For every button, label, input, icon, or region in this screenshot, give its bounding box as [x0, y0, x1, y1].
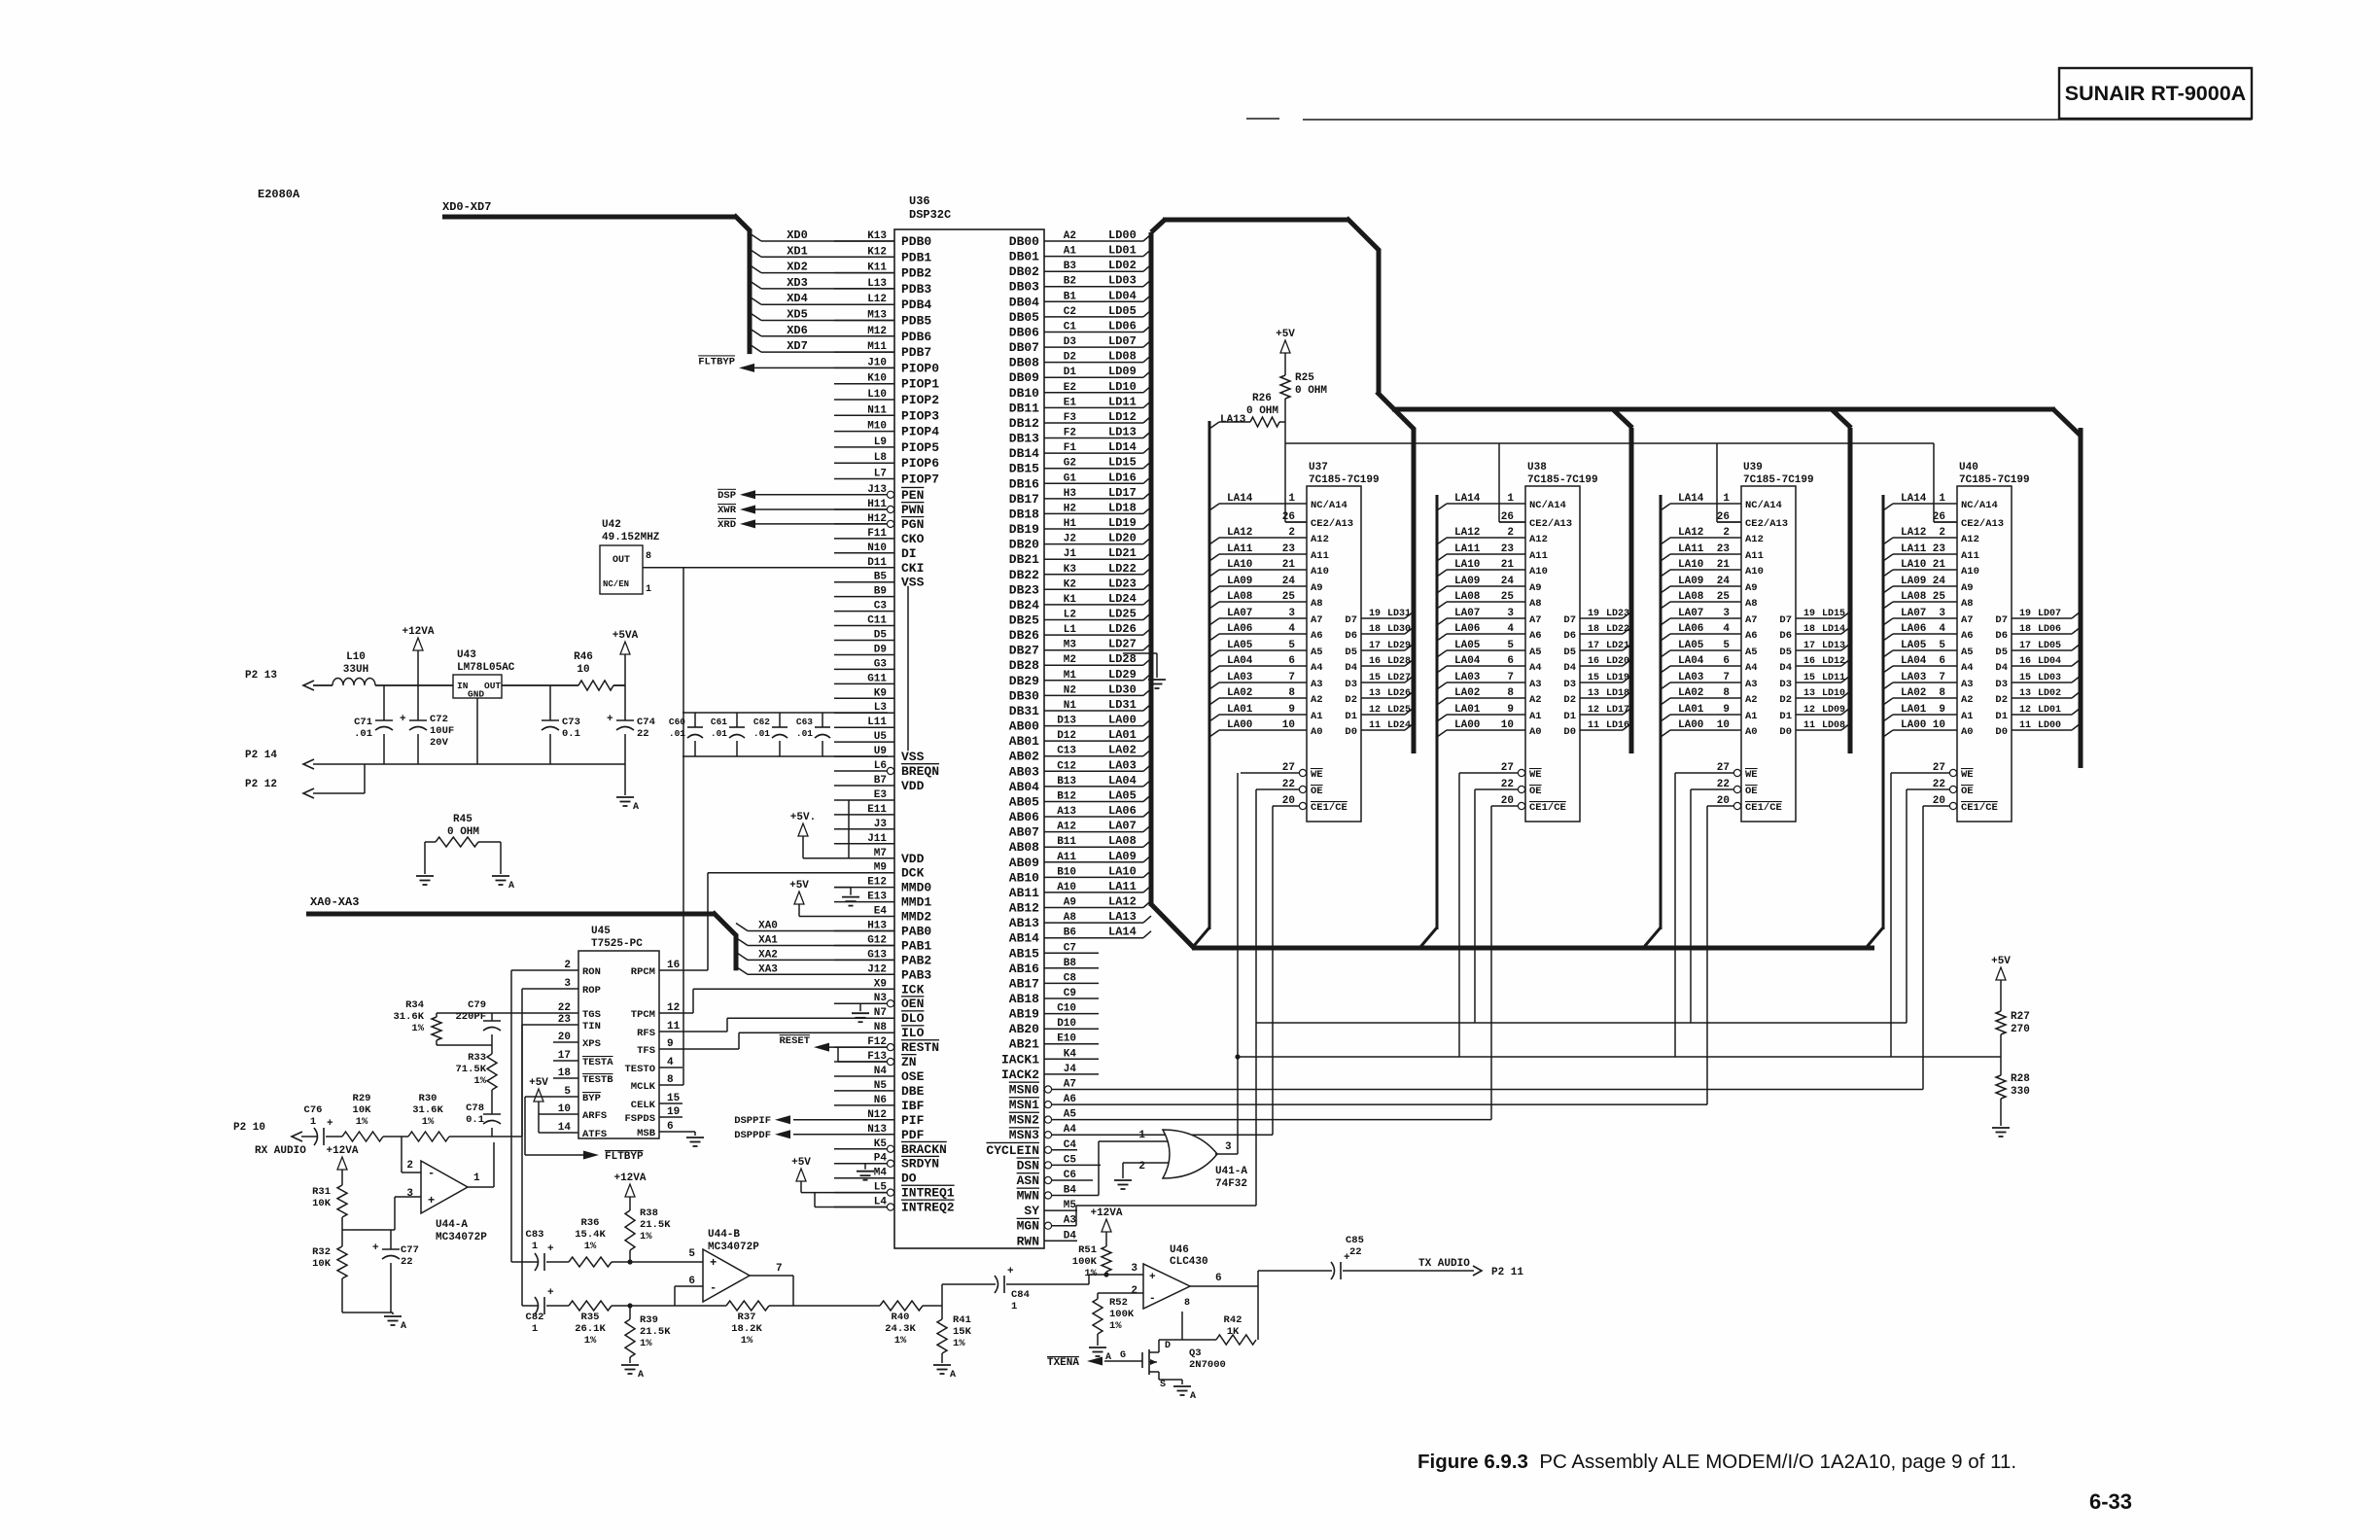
svg-text:LA12: LA12	[1901, 527, 1926, 539]
svg-text:R52: R52	[1109, 1297, 1128, 1309]
svg-text:TXENA: TXENA	[1047, 1357, 1079, 1369]
svg-text:LD15: LD15	[1108, 456, 1137, 470]
svg-text:K13: K13	[867, 230, 887, 242]
resistor R39 21.5K 1% with ground	[621, 1303, 671, 1381]
svg-text:L11: L11	[867, 717, 887, 728]
svg-text:PDF: PDF	[901, 1128, 925, 1142]
svg-text:+: +	[428, 1194, 435, 1207]
svg-text:8: 8	[1184, 1298, 1190, 1309]
svg-text:C78: C78	[466, 1102, 484, 1114]
svg-text:LA10: LA10	[1454, 559, 1480, 571]
svg-text:6: 6	[1288, 655, 1295, 667]
svg-text:D6: D6	[1779, 630, 1792, 642]
+5V pull-up at U36 VDD pin M7	[790, 812, 834, 858]
ground near U36 data bus	[1123, 653, 1166, 688]
svg-text:A12: A12	[1961, 534, 1979, 545]
svg-text:22: 22	[637, 728, 649, 740]
svg-text:7: 7	[1288, 672, 1295, 683]
svg-text:3: 3	[1507, 608, 1514, 619]
svg-text:20: 20	[1501, 795, 1514, 807]
wire XA0 to U36 pin H13	[736, 921, 894, 932]
svg-text:C9: C9	[1064, 988, 1076, 999]
svg-text:26.1K: 26.1K	[575, 1323, 606, 1335]
svg-text:CE2/A13: CE2/A13	[1311, 518, 1353, 530]
svg-text:P2 12: P2 12	[245, 779, 277, 790]
svg-text:A: A	[633, 802, 639, 813]
svg-text:Q3: Q3	[1189, 1347, 1202, 1359]
svg-text:OE: OE	[1311, 786, 1323, 797]
svg-text:L8: L8	[874, 452, 888, 464]
bus diagonal drop to U38 data bus	[1613, 409, 1632, 428]
svg-text:J1: J1	[1064, 548, 1077, 560]
svg-text:1%: 1%	[473, 1075, 486, 1087]
wire U44-B output node	[750, 1276, 880, 1306]
signal DSPPIF (to U36 PIF pin N12)	[734, 1115, 894, 1127]
svg-text:N3: N3	[874, 993, 888, 1004]
ground at U36 MMD0 pin E12	[834, 888, 859, 906]
wire XD0 from XD bus to U36 pin K13	[750, 228, 894, 242]
svg-text:10: 10	[1282, 719, 1295, 731]
svg-text:A9: A9	[1529, 582, 1542, 594]
svg-text:27: 27	[1933, 762, 1945, 774]
svg-text:4: 4	[1723, 623, 1730, 635]
svg-text:N7: N7	[874, 1007, 887, 1019]
svg-text:SRDYN: SRDYN	[901, 1157, 939, 1172]
svg-text:MWN: MWN	[1017, 1189, 1039, 1204]
svg-text:A11: A11	[1529, 550, 1548, 562]
wire U45 MCLK stub to oscillator net	[682, 1084, 683, 1086]
svg-text:3: 3	[1288, 608, 1295, 619]
svg-text:ROP: ROP	[582, 985, 601, 997]
bus diagonal drop to U39 data bus	[1832, 409, 1851, 428]
svg-text:PAB1: PAB1	[901, 939, 931, 954]
svg-text:U5: U5	[874, 731, 888, 743]
svg-text:2: 2	[1507, 527, 1514, 539]
svg-text:N4: N4	[874, 1066, 888, 1077]
svg-text:TESTB: TESTB	[582, 1074, 613, 1086]
svg-text:15: 15	[667, 1093, 681, 1104]
svg-text:LA07: LA07	[1227, 608, 1252, 619]
svg-text:R46: R46	[574, 651, 593, 663]
svg-text:A1: A1	[1961, 711, 1974, 722]
svg-text:PDB6: PDB6	[901, 330, 931, 344]
svg-text:L13: L13	[867, 278, 887, 290]
svg-text:+12VA: +12VA	[613, 1172, 646, 1184]
svg-text:N1: N1	[1064, 700, 1077, 712]
svg-text:M13: M13	[867, 310, 887, 322]
svg-text:E2080A: E2080A	[258, 188, 300, 201]
svg-text:R32: R32	[312, 1246, 331, 1258]
resistor R34 31.6K 1% (TGS network)	[393, 999, 553, 1045]
svg-text:23: 23	[1501, 543, 1515, 555]
svg-text:D7: D7	[1563, 614, 1576, 626]
svg-text:C77: C77	[401, 1244, 419, 1256]
svg-text:LA08: LA08	[1108, 834, 1137, 848]
U40 control pins WE OE CE1	[1891, 762, 1998, 814]
wire XD5 from XD bus to U36 pin M13	[750, 308, 894, 322]
svg-text:OUT: OUT	[484, 681, 501, 691]
svg-text:R51: R51	[1078, 1244, 1097, 1256]
svg-text:AB15: AB15	[1009, 946, 1039, 961]
svg-text:1%: 1%	[584, 1335, 597, 1347]
svg-text:R26: R26	[1252, 393, 1272, 404]
svg-text:LD08: LD08	[1108, 350, 1137, 364]
svg-text:J13: J13	[867, 484, 887, 496]
svg-text:1K: 1K	[1227, 1326, 1240, 1338]
svg-text:G1: G1	[1064, 472, 1077, 484]
svg-text:AB03: AB03	[1009, 764, 1039, 779]
signal TXENA to Q3 gate	[1047, 1357, 1142, 1370]
svg-text:CE1/CE: CE1/CE	[1311, 802, 1347, 814]
svg-text:R41: R41	[953, 1314, 971, 1326]
svg-text:+12VA: +12VA	[1090, 1207, 1122, 1219]
svg-text:R42: R42	[1224, 1314, 1242, 1326]
svg-text:U43: U43	[457, 649, 476, 661]
svg-text:LA00: LA00	[1108, 714, 1137, 727]
svg-text:LA04: LA04	[1227, 655, 1253, 667]
svg-text:A13: A13	[1057, 806, 1076, 818]
svg-text:6-33: 6-33	[2089, 1489, 2132, 1514]
svg-text:LA07: LA07	[1678, 608, 1703, 619]
svg-text:A7: A7	[1529, 614, 1542, 626]
wire XA3 to U36 pin J12	[736, 963, 894, 975]
bus LD00-LD31/LA00-LA14 vertical trunk	[1151, 220, 1165, 906]
svg-text:A12: A12	[1057, 822, 1076, 833]
svg-text:M4: M4	[874, 1168, 888, 1179]
svg-text:C5: C5	[1064, 1154, 1077, 1166]
svg-text:3: 3	[406, 1188, 413, 1200]
svg-text:12: 12	[667, 1002, 680, 1014]
svg-text:R25: R25	[1295, 372, 1314, 384]
svg-text:+: +	[372, 1242, 379, 1254]
svg-text:9: 9	[1939, 704, 1945, 716]
svg-text:LA12: LA12	[1678, 527, 1703, 539]
svg-text:U44-A: U44-A	[436, 1219, 468, 1231]
net RWN stub	[1044, 1240, 1077, 1242]
svg-text:14: 14	[558, 1122, 572, 1134]
svg-text:22: 22	[1282, 779, 1295, 790]
svg-text:LA09: LA09	[1454, 576, 1480, 587]
svg-text:220PF: 220PF	[455, 1011, 486, 1023]
svg-text:AB19: AB19	[1009, 1007, 1039, 1022]
svg-text:8: 8	[1507, 687, 1514, 699]
svg-text:LD24: LD24	[1108, 592, 1137, 606]
svg-text:2: 2	[406, 1160, 413, 1172]
svg-text:U40: U40	[1959, 462, 1978, 473]
svg-text:23: 23	[1933, 543, 1946, 555]
svg-text:L4: L4	[874, 1197, 888, 1208]
svg-text:0.1: 0.1	[466, 1114, 484, 1126]
svg-text:P4: P4	[874, 1153, 888, 1165]
svg-text:F11: F11	[867, 528, 887, 540]
svg-text:+: +	[327, 1118, 333, 1130]
svg-text:3: 3	[564, 978, 571, 990]
svg-text:4: 4	[1939, 623, 1945, 635]
svg-text:2: 2	[1723, 527, 1730, 539]
svg-text:R36: R36	[581, 1217, 600, 1229]
wire U45 RPCM to U36 DCK pin M9	[682, 873, 834, 970]
svg-text:F3: F3	[1064, 412, 1077, 424]
svg-text:DB09: DB09	[1009, 370, 1039, 385]
wire bracket joining U36 pins E3 E11 J3 J11 M7	[848, 800, 850, 858]
svg-text:CE2/A13: CE2/A13	[1745, 518, 1788, 530]
op-amp U44-A MC34072P	[406, 1160, 487, 1243]
svg-text:LD29: LD29	[1108, 668, 1137, 682]
wire U38 OE drop to OE run	[1474, 789, 1476, 1023]
svg-text:B4: B4	[1064, 1185, 1077, 1197]
svg-text:21: 21	[1501, 559, 1515, 571]
svg-text:25: 25	[1717, 591, 1731, 603]
svg-text:LA05: LA05	[1901, 640, 1927, 651]
U38 address pin rows LA14-LA00	[1437, 493, 1572, 738]
svg-text:7C185-7C199: 7C185-7C199	[1309, 474, 1380, 486]
wire oscillator U42 OUT to U36 CKI pin D11	[643, 567, 894, 569]
svg-text:LA07: LA07	[1454, 608, 1480, 619]
title underline	[1246, 119, 2252, 120]
svg-text:D1: D1	[1995, 711, 2008, 722]
svg-text:27: 27	[1501, 762, 1514, 774]
svg-text:21.5K: 21.5K	[640, 1219, 671, 1231]
svg-text:LA14: LA14	[1678, 493, 1704, 505]
svg-text:C71: C71	[354, 717, 372, 728]
svg-text:49.152MHZ: 49.152MHZ	[602, 532, 660, 543]
svg-text:LA06: LA06	[1901, 623, 1926, 635]
capacitor C85 22 (TX output coupling)	[1258, 1235, 1412, 1279]
svg-text:7: 7	[1507, 672, 1514, 683]
svg-text:D5: D5	[1995, 647, 2008, 658]
svg-text:NC/A14: NC/A14	[1961, 500, 1998, 511]
resistor R29 10K 1%	[342, 1093, 408, 1141]
svg-text:18: 18	[558, 1067, 572, 1079]
signal DSPPDF (to U36 PDF pin N13)	[734, 1130, 894, 1141]
svg-text:TPCM: TPCM	[631, 1009, 655, 1021]
svg-text:7: 7	[776, 1263, 783, 1275]
svg-text:LA10: LA10	[1901, 559, 1926, 571]
svg-text:U36: U36	[909, 194, 930, 208]
svg-text:LA14: LA14	[1901, 493, 1927, 505]
svg-text:D4: D4	[1779, 662, 1792, 674]
svg-text:R35: R35	[581, 1312, 600, 1323]
svg-text:LD31: LD31	[1108, 698, 1137, 712]
U36 left pin rows (pin numbers, names, stub wires)	[834, 230, 955, 1215]
svg-text:20: 20	[1282, 795, 1295, 807]
svg-text:A1: A1	[1064, 246, 1077, 258]
svg-text:DB15: DB15	[1009, 462, 1039, 476]
data bus segment for U37	[1412, 428, 1417, 753]
signal RESET (to U36 RESTN pin F12)	[779, 1035, 887, 1052]
svg-text:1: 1	[532, 1241, 538, 1252]
svg-text:CE2/A13: CE2/A13	[1961, 518, 2004, 530]
svg-text:AB09: AB09	[1009, 856, 1039, 870]
svg-text:5: 5	[1939, 640, 1945, 651]
signal XRD (to U36 PGN)	[717, 519, 887, 531]
svg-text:U44-B: U44-B	[708, 1229, 740, 1241]
svg-text:MSN1: MSN1	[1009, 1098, 1039, 1112]
svg-text:LA09: LA09	[1227, 576, 1252, 587]
resistor R28 330 pull-down	[1992, 1073, 2030, 1137]
svg-text:ATFS: ATFS	[582, 1129, 607, 1140]
signal XWR (to U36 PWN)	[717, 505, 887, 516]
svg-text:330: 330	[2011, 1086, 2030, 1098]
svg-text:C7: C7	[1064, 942, 1076, 954]
svg-text:DB24: DB24	[1009, 598, 1039, 612]
svg-text:LD02: LD02	[1108, 259, 1137, 272]
svg-text:K11: K11	[867, 262, 887, 274]
svg-text:LD03: LD03	[1108, 274, 1137, 288]
svg-text:LD09: LD09	[1108, 365, 1137, 378]
svg-text:D6: D6	[1563, 630, 1576, 642]
svg-text:9: 9	[1723, 704, 1730, 716]
SRAM U38 7C185-7C199 body	[1525, 462, 1598, 822]
U40 address pin rows LA14-LA00	[1883, 493, 2004, 738]
svg-text:C85: C85	[1346, 1235, 1364, 1246]
capacitor C73 0.1	[542, 685, 580, 764]
ground at U36 SRDYN pin P4	[857, 1164, 885, 1180]
svg-text:XRD: XRD	[717, 519, 736, 531]
svg-text:AB17: AB17	[1009, 976, 1039, 991]
address bus LA trunk for U39	[1644, 495, 1661, 947]
svg-text:LA11: LA11	[1901, 543, 1927, 555]
svg-text:R28: R28	[2011, 1073, 2030, 1085]
svg-text:10: 10	[558, 1103, 571, 1115]
svg-text:LA04: LA04	[1678, 655, 1704, 667]
svg-text:LA08: LA08	[1454, 591, 1481, 603]
svg-text:D1: D1	[1563, 711, 1576, 722]
svg-text:LA02: LA02	[1108, 744, 1137, 757]
svg-text:TESTO: TESTO	[624, 1064, 655, 1075]
svg-text:LA10: LA10	[1108, 864, 1137, 878]
svg-text:+: +	[1149, 1272, 1156, 1283]
svg-text:U37: U37	[1309, 462, 1328, 473]
svg-text:A12: A12	[1745, 534, 1764, 545]
resistor R51 100K 1%	[1072, 1207, 1123, 1279]
svg-text:LA02: LA02	[1454, 687, 1480, 699]
resistor R31 10K	[312, 1185, 347, 1246]
svg-text:Figure 6.9.3 PC Assembly ALE: Figure 6.9.3 PC Assembly ALE MODEM/I/O 1…	[1417, 1451, 2016, 1473]
svg-text:D13: D13	[1057, 716, 1076, 727]
wire XD6 from XD bus to U36 pin M12	[750, 324, 894, 337]
wire U39 OE drop to OE run	[1690, 789, 1692, 1023]
svg-text:LA05: LA05	[1678, 640, 1704, 651]
svg-text:DB28: DB28	[1009, 658, 1039, 673]
svg-text:K2: K2	[1064, 578, 1076, 590]
svg-text:D7: D7	[1995, 614, 2008, 626]
svg-text:RWN: RWN	[1017, 1234, 1039, 1248]
svg-text:A5: A5	[1529, 647, 1542, 658]
svg-text:2: 2	[1288, 527, 1295, 539]
svg-text:FSPDS: FSPDS	[624, 1113, 655, 1125]
svg-text:LA01: LA01	[1678, 704, 1704, 716]
wire U45 RFS to U36 DLO pin N7	[682, 1018, 834, 1032]
SRAM U39 7C185-7C199 body	[1741, 462, 1814, 822]
svg-text:PIOP3: PIOP3	[901, 408, 939, 423]
wire U45 TPCM to U36 ICK pin X9	[682, 989, 834, 1013]
svg-text:P2 13: P2 13	[245, 670, 277, 682]
capacitor C72 10UF 20V	[400, 685, 454, 764]
svg-text:CKO: CKO	[901, 532, 925, 546]
svg-text:A9: A9	[1961, 582, 1974, 594]
svg-text:MMD0: MMD0	[901, 881, 931, 895]
svg-text:AB14: AB14	[1009, 931, 1039, 946]
svg-text:23: 23	[1717, 543, 1731, 555]
svg-text:LD23: LD23	[1108, 577, 1137, 590]
svg-text:5: 5	[564, 1086, 571, 1098]
svg-text:9: 9	[1288, 704, 1295, 716]
svg-text:DB21: DB21	[1009, 552, 1039, 567]
svg-text:4: 4	[667, 1057, 674, 1068]
svg-text:DB08: DB08	[1009, 356, 1039, 370]
svg-text:PIOP5: PIOP5	[901, 440, 939, 455]
svg-text:RPCM: RPCM	[631, 966, 655, 978]
svg-text:LD04: LD04	[1108, 289, 1137, 302]
svg-text:1: 1	[1288, 493, 1295, 505]
wire U37 WE drop / OR output vertical	[1235, 773, 1240, 1154]
svg-text:8: 8	[1939, 687, 1945, 699]
svg-text:27: 27	[1717, 762, 1730, 774]
svg-text:PDB4: PDB4	[901, 297, 931, 312]
svg-text:OE: OE	[1529, 786, 1542, 797]
svg-text:1%: 1%	[640, 1231, 652, 1242]
svg-text:BRACKN: BRACKN	[901, 1142, 947, 1157]
svg-text:D2: D2	[1995, 694, 2008, 706]
svg-text:DLO: DLO	[901, 1011, 925, 1026]
svg-text:CYCLEIN: CYCLEIN	[986, 1143, 1039, 1158]
svg-text:LD25: LD25	[1108, 608, 1137, 621]
svg-text:A0: A0	[1745, 726, 1758, 738]
svg-text:D: D	[1165, 1341, 1171, 1351]
svg-text:+: +	[1007, 1266, 1014, 1277]
svg-text:WE: WE	[1745, 769, 1758, 781]
svg-text:LD20: LD20	[1108, 532, 1137, 545]
svg-text:LD13: LD13	[1108, 426, 1137, 439]
svg-text:K4: K4	[1064, 1048, 1077, 1060]
net CE2/A13 horizontal run from R25/R26 node	[1285, 442, 1934, 444]
svg-text:OEN: OEN	[901, 997, 924, 1011]
svg-text:10K: 10K	[312, 1198, 332, 1209]
svg-text:LA05: LA05	[1454, 640, 1481, 651]
svg-text:MSN2: MSN2	[1009, 1113, 1039, 1128]
svg-text:D4: D4	[1563, 662, 1576, 674]
svg-text:LA14: LA14	[1108, 926, 1137, 939]
svg-text:CE1/CE: CE1/CE	[1529, 802, 1566, 814]
svg-text:FLTBYP: FLTBYP	[698, 356, 735, 367]
svg-text:D11: D11	[867, 557, 887, 569]
svg-text:2: 2	[564, 960, 571, 971]
svg-text:A9: A9	[1064, 897, 1076, 909]
svg-text:U41-A: U41-A	[1215, 1166, 1247, 1177]
svg-text:C1: C1	[1064, 322, 1077, 333]
svg-text:CKI: CKI	[901, 561, 924, 576]
svg-text:L12: L12	[867, 294, 887, 305]
svg-text:PIOP6: PIOP6	[901, 456, 939, 471]
svg-text:B8: B8	[1064, 958, 1077, 969]
capacitor C77 22	[372, 1230, 419, 1312]
svg-text:R40: R40	[892, 1312, 910, 1323]
svg-text:J12: J12	[867, 963, 887, 975]
ground at U45 MSB pin 6	[682, 1132, 704, 1146]
svg-text:CELK: CELK	[631, 1100, 656, 1111]
svg-text:DB03: DB03	[1009, 280, 1039, 295]
svg-text:3: 3	[1939, 608, 1945, 619]
svg-text:LD21: LD21	[1108, 546, 1137, 560]
svg-text:N6: N6	[874, 1095, 887, 1106]
svg-text:LD11: LD11	[1108, 395, 1137, 408]
svg-text:DCK: DCK	[901, 866, 925, 881]
svg-text:U42: U42	[602, 519, 621, 531]
SRAM U37 7C185-7C199 body	[1307, 462, 1380, 822]
svg-text:LA11: LA11	[1678, 543, 1704, 555]
svg-text:A5: A5	[1961, 647, 1974, 658]
